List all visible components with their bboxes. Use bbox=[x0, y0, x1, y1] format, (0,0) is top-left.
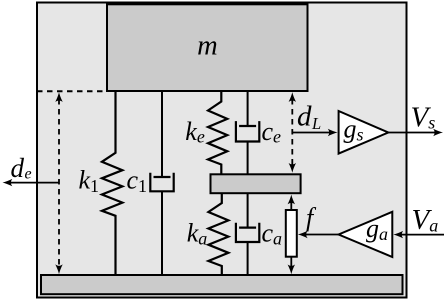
spring k1 bbox=[102, 91, 123, 275]
damper ce bbox=[247, 91, 249, 126]
sensor input line bbox=[292, 132, 332, 134]
mass m bbox=[107, 4, 308, 91]
intermediate plate bbox=[211, 174, 301, 193]
actuator arrow down to ground bbox=[290, 257, 292, 270]
svg-text:de: de bbox=[11, 153, 32, 183]
spring ka bbox=[208, 193, 228, 275]
sensor output arrow V_s bbox=[388, 132, 437, 134]
actuator rectangle bbox=[286, 210, 297, 257]
dashed reference line (horizontal, at mass bottom) bbox=[37, 90, 107, 92]
dashed displacement line d_L bbox=[291, 99, 293, 166]
svg-text:m: m bbox=[197, 30, 218, 61]
ground bar bbox=[41, 275, 403, 294]
gain g_s triangle bbox=[339, 111, 389, 154]
d_e output arrow bbox=[8, 182, 59, 184]
dashed displacement line d_e bbox=[58, 99, 60, 268]
gain g_a triangle bbox=[339, 212, 393, 257]
damper ca bbox=[247, 193, 249, 227]
force arrow from g_a to actuator bbox=[303, 234, 339, 236]
actuator arrow up to plate bbox=[290, 198, 292, 210]
svg-text:Va: Va bbox=[412, 204, 439, 236]
svg-text:Vs: Vs bbox=[411, 101, 436, 133]
actuator input arrow V_a bbox=[398, 234, 444, 236]
spring ke bbox=[208, 91, 227, 174]
damper c1 bbox=[161, 91, 163, 177]
